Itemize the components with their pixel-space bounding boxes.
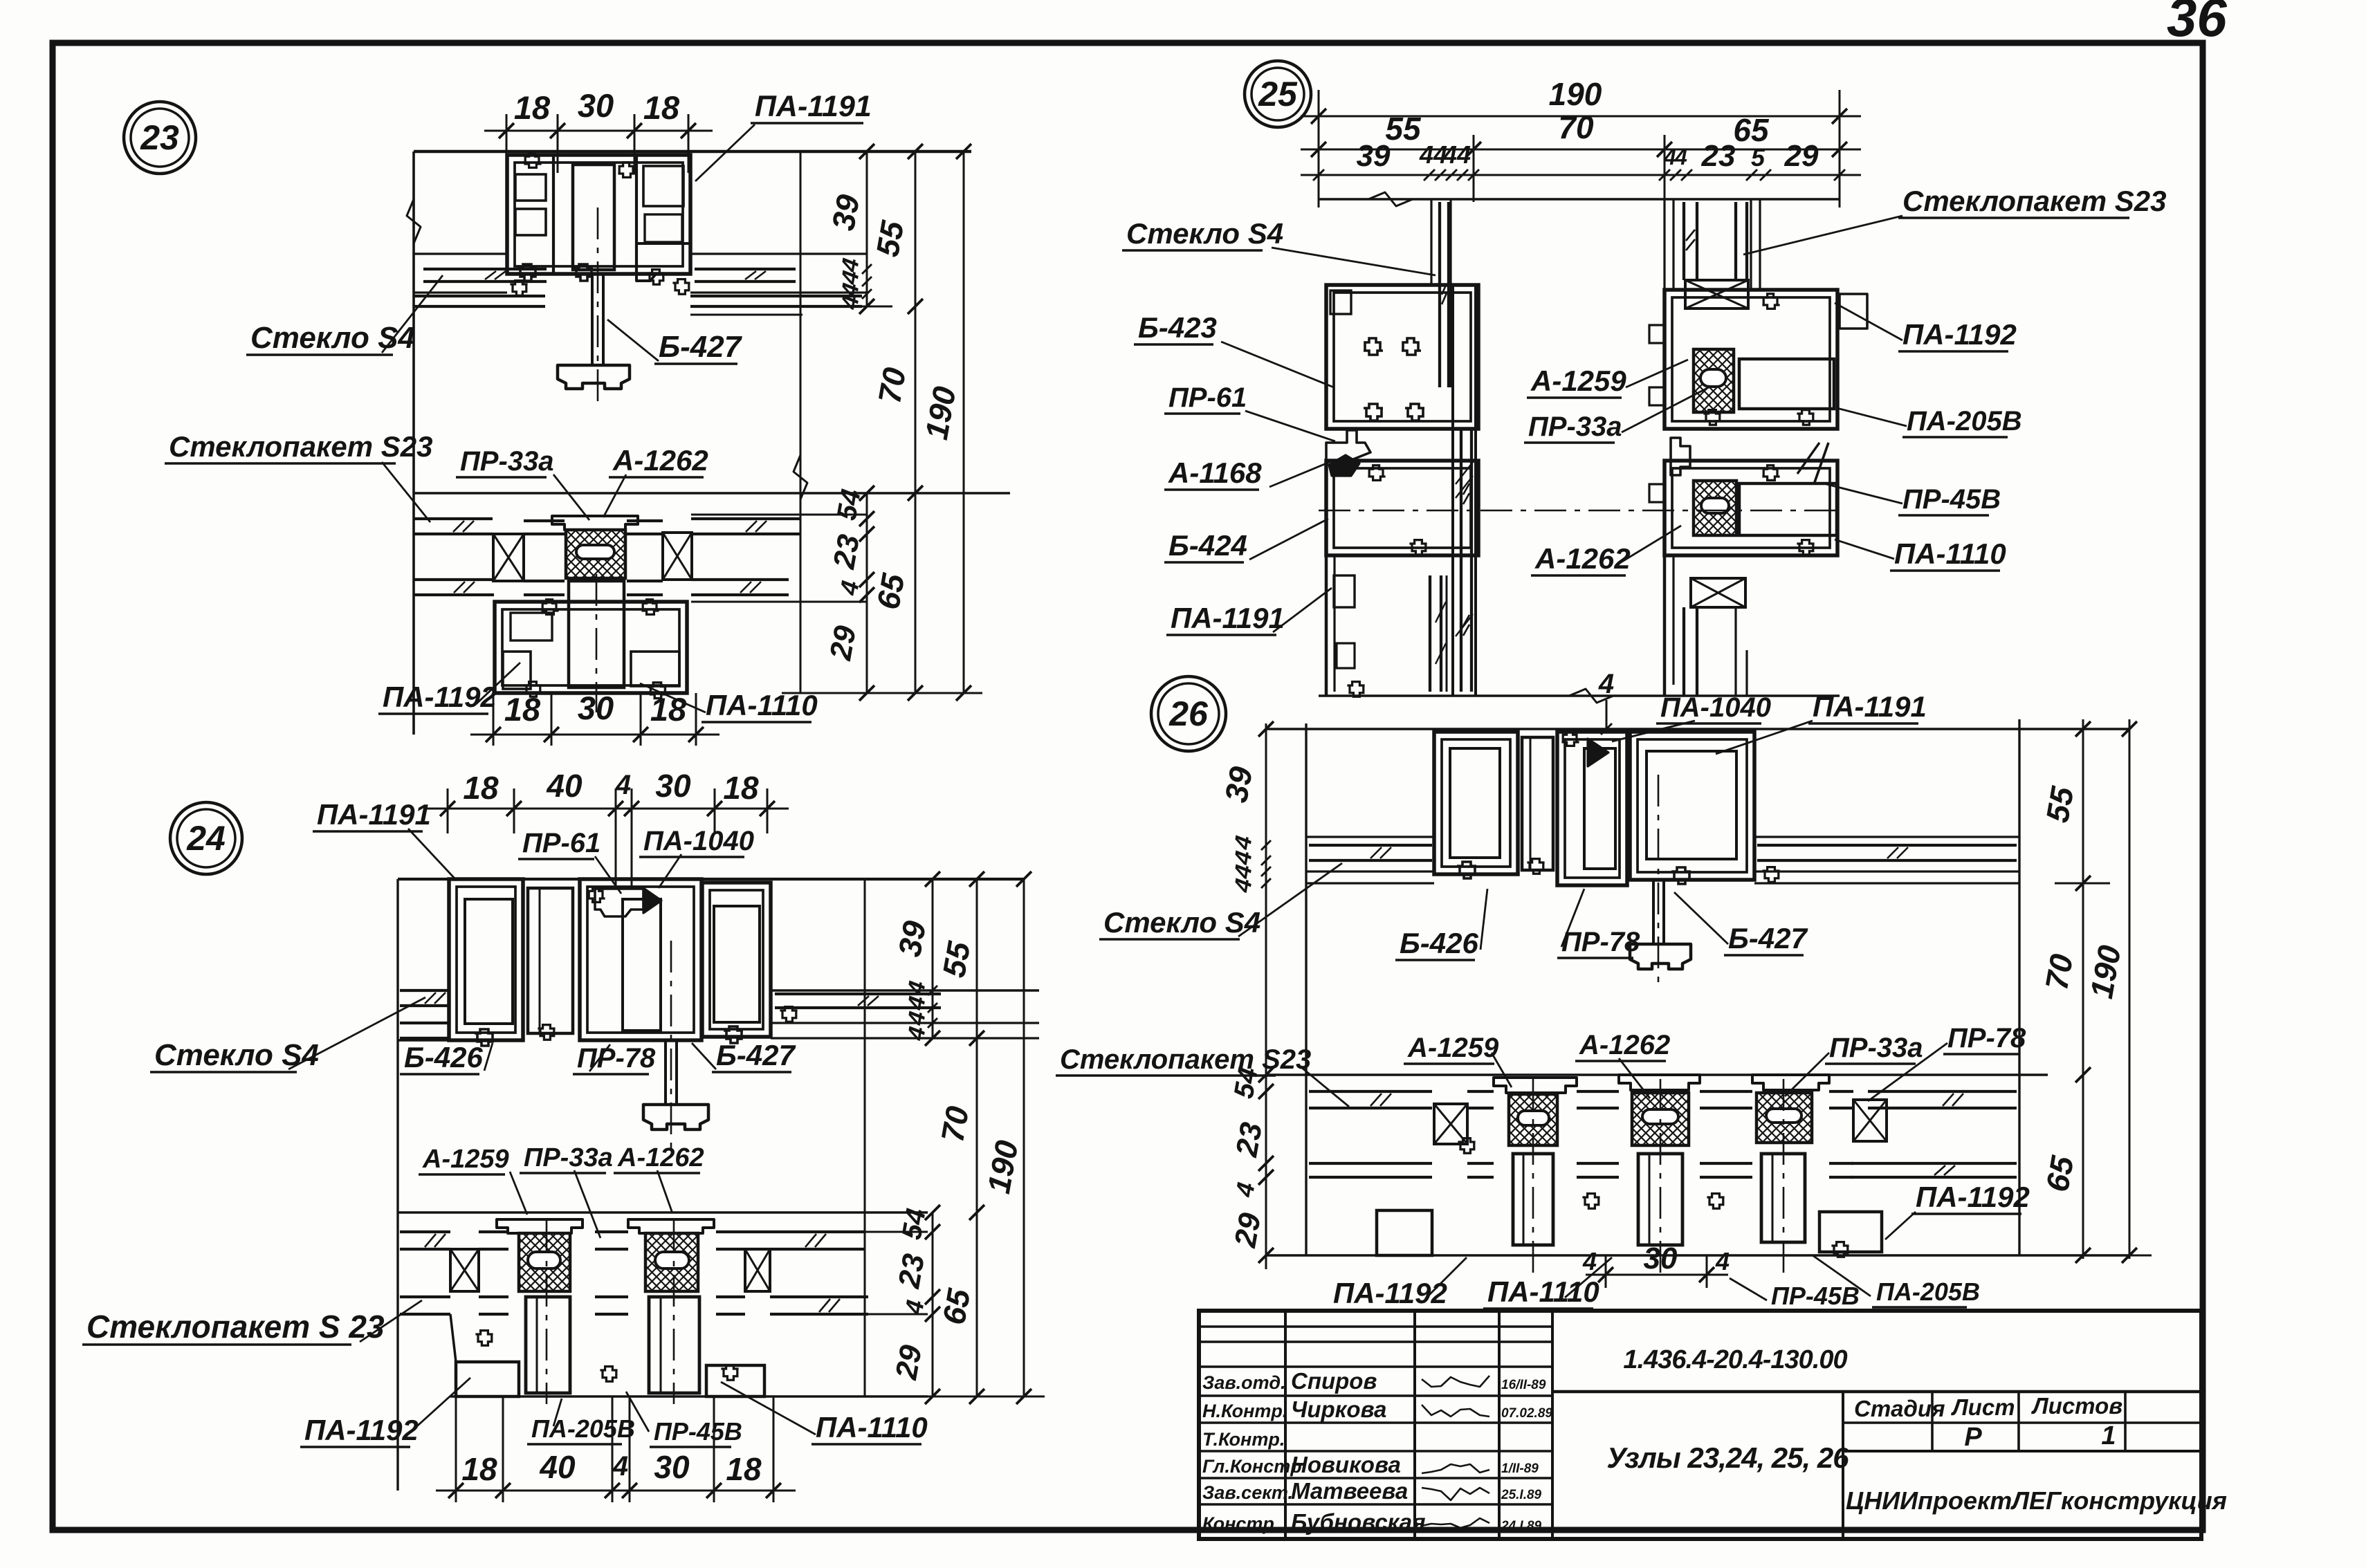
- svg-text:Лист: Лист: [1951, 1394, 2015, 1420]
- svg-text:А-1262: А-1262: [612, 444, 708, 477]
- svg-text:ПР-78: ПР-78: [1561, 927, 1640, 957]
- svg-text:Констр.: Констр.: [1202, 1513, 1279, 1534]
- svg-text:30: 30: [578, 87, 614, 124]
- svg-text:26: 26: [1168, 694, 1209, 733]
- svg-text:30: 30: [1644, 1242, 1678, 1275]
- svg-text:А-1168: А-1168: [1168, 456, 1262, 489]
- svg-text:4: 4: [1674, 145, 1687, 169]
- svg-text:Б-427: Б-427: [1728, 922, 1808, 954]
- svg-text:Листов: Листов: [2031, 1393, 2122, 1419]
- svg-text:70: 70: [2038, 951, 2080, 993]
- svg-text:Стекло S4: Стекло S4: [250, 321, 415, 355]
- svg-text:Стеклопакет S 23: Стеклопакет S 23: [86, 1309, 385, 1345]
- svg-text:30: 30: [654, 1449, 690, 1485]
- svg-text:ПР-33а: ПР-33а: [1528, 412, 1622, 442]
- svg-text:4: 4: [615, 770, 631, 800]
- svg-text:25: 25: [1258, 75, 1298, 113]
- svg-text:44: 44: [1442, 140, 1471, 169]
- svg-text:40: 40: [539, 1449, 576, 1485]
- svg-text:18: 18: [723, 770, 759, 806]
- svg-text:23: 23: [827, 532, 866, 572]
- svg-text:18: 18: [504, 691, 541, 728]
- svg-text:Чиркова: Чиркова: [1291, 1396, 1386, 1422]
- svg-text:23: 23: [892, 1251, 931, 1291]
- svg-text:24: 24: [186, 819, 226, 858]
- svg-text:Б-427: Б-427: [659, 330, 743, 364]
- svg-text:ПА-1192: ПА-1192: [1916, 1181, 2030, 1213]
- svg-text:ПА-1110: ПА-1110: [1487, 1275, 1599, 1308]
- svg-text:65: 65: [870, 570, 911, 612]
- svg-text:23: 23: [140, 118, 179, 157]
- svg-text:Зав.сект.: Зав.сект.: [1202, 1482, 1293, 1503]
- svg-text:ПА-1110: ПА-1110: [816, 1411, 928, 1444]
- svg-text:4: 4: [1715, 1247, 1730, 1275]
- svg-text:ПА-1192: ПА-1192: [383, 681, 497, 713]
- svg-text:А-1262: А-1262: [1534, 542, 1631, 575]
- svg-text:Матвеева: Матвеева: [1291, 1478, 1408, 1504]
- svg-text:ПР-33а: ПР-33а: [524, 1143, 613, 1172]
- svg-text:ПА-205В: ПА-205В: [1876, 1278, 1980, 1306]
- svg-text:ПА-1191: ПА-1191: [755, 90, 872, 123]
- svg-text:Спиров: Спиров: [1291, 1368, 1377, 1394]
- svg-text:ПА-1040: ПА-1040: [643, 826, 754, 856]
- svg-text:29: 29: [823, 623, 863, 663]
- svg-text:Стадия: Стадия: [1854, 1396, 1945, 1421]
- svg-text:70: 70: [1558, 109, 1594, 145]
- svg-text:Узлы 23,24, 25, 26: Узлы 23,24, 25, 26: [1606, 1441, 1849, 1474]
- svg-text:18: 18: [514, 89, 551, 126]
- svg-text:39: 39: [825, 192, 866, 233]
- svg-text:А-1259: А-1259: [1407, 1033, 1499, 1063]
- svg-text:16/II-89: 16/II-89: [1501, 1378, 1546, 1392]
- svg-text:1/II-89: 1/II-89: [1501, 1461, 1539, 1476]
- svg-text:39: 39: [1357, 139, 1391, 173]
- svg-text:Новикова: Новикова: [1291, 1452, 1401, 1477]
- svg-text:39: 39: [1218, 764, 1259, 805]
- svg-text:55: 55: [1385, 111, 1422, 147]
- svg-text:Б-427: Б-427: [716, 1039, 796, 1071]
- svg-text:ПР-45В: ПР-45В: [1771, 1282, 1860, 1310]
- svg-text:ПА-1040: ПА-1040: [1660, 692, 1771, 723]
- svg-text:29: 29: [1784, 139, 1819, 173]
- svg-text:ПР-33а: ПР-33а: [460, 446, 554, 477]
- svg-text:29: 29: [889, 1343, 928, 1383]
- svg-text:ПР-61: ПР-61: [1168, 382, 1247, 413]
- svg-text:Р: Р: [1964, 1423, 1982, 1452]
- svg-text:1: 1: [2101, 1421, 2116, 1450]
- svg-text:А-1262: А-1262: [617, 1143, 704, 1172]
- svg-text:ПА-205В: ПА-205В: [1907, 406, 2022, 436]
- svg-text:ПА-1191: ПА-1191: [1171, 602, 1285, 634]
- svg-text:Стекло S4: Стекло S4: [1103, 906, 1260, 939]
- svg-text:ПР-33а: ПР-33а: [1829, 1033, 1923, 1063]
- svg-text:А-1259: А-1259: [1530, 365, 1626, 397]
- svg-text:190: 190: [1549, 76, 1602, 112]
- svg-text:30: 30: [578, 690, 614, 726]
- svg-text:ПА-1192: ПА-1192: [304, 1414, 419, 1446]
- svg-text:54: 54: [832, 487, 867, 522]
- svg-text:Стеклопакет S23: Стеклопакет S23: [1060, 1044, 1311, 1075]
- svg-text:ПА-1110: ПА-1110: [1894, 537, 2006, 570]
- svg-text:4: 4: [612, 1451, 628, 1482]
- svg-text:ПА-1191: ПА-1191: [317, 798, 431, 831]
- svg-text:5: 5: [1751, 143, 1766, 172]
- svg-text:40: 40: [546, 768, 583, 804]
- svg-text:ПА-205В: ПА-205В: [531, 1414, 635, 1443]
- svg-text:А-1262: А-1262: [1579, 1030, 1670, 1060]
- svg-text:ПА-1192: ПА-1192: [1902, 318, 2017, 351]
- svg-text:Бубновская: Бубновская: [1291, 1509, 1426, 1535]
- svg-text:55: 55: [869, 217, 910, 259]
- svg-text:55: 55: [935, 938, 977, 980]
- svg-text:30: 30: [655, 768, 691, 804]
- svg-text:18: 18: [643, 89, 680, 126]
- svg-text:Зав.отд.: Зав.отд.: [1202, 1372, 1286, 1393]
- svg-text:70: 70: [934, 1103, 975, 1145]
- svg-text:18: 18: [463, 770, 499, 806]
- svg-text:23: 23: [1229, 1120, 1269, 1160]
- svg-text:65: 65: [935, 1285, 977, 1327]
- svg-text:ПР-78: ПР-78: [577, 1043, 656, 1073]
- svg-text:39: 39: [891, 918, 933, 959]
- svg-text:18: 18: [726, 1451, 762, 1487]
- svg-text:Стеклопакет S23: Стеклопакет S23: [169, 430, 432, 463]
- svg-text:1.436.4-20.4-130.00: 1.436.4-20.4-130.00: [1623, 1345, 1847, 1374]
- svg-text:25.I.89: 25.I.89: [1501, 1488, 1542, 1502]
- svg-text:Б-426: Б-426: [404, 1041, 483, 1073]
- svg-text:29: 29: [1228, 1210, 1267, 1251]
- svg-text:55: 55: [2039, 783, 2080, 825]
- svg-text:65: 65: [2039, 1152, 2080, 1195]
- svg-text:Стекло S4: Стекло S4: [1126, 217, 1283, 250]
- svg-text:Т.Контр.: Т.Контр.: [1202, 1429, 1285, 1450]
- svg-text:Б-423: Б-423: [1138, 311, 1217, 344]
- svg-text:Б-426: Б-426: [1400, 927, 1478, 959]
- svg-text:ПА-1191: ПА-1191: [1813, 690, 1927, 723]
- svg-text:70: 70: [871, 365, 913, 406]
- svg-text:24.I.89: 24.I.89: [1501, 1519, 1542, 1533]
- svg-text:54: 54: [897, 1206, 932, 1242]
- svg-text:18: 18: [461, 1451, 497, 1487]
- svg-text:Гл.Констр: Гл.Констр: [1202, 1456, 1302, 1477]
- svg-text:07.02.89: 07.02.89: [1501, 1406, 1552, 1421]
- svg-text:ПР-78: ПР-78: [1947, 1023, 2026, 1053]
- svg-text:ПР-61: ПР-61: [522, 828, 600, 858]
- svg-text:Б-424: Б-424: [1168, 529, 1247, 562]
- svg-text:ПР-45В: ПР-45В: [1902, 484, 2001, 515]
- svg-text:А-1259: А-1259: [422, 1145, 509, 1174]
- svg-text:Н.Контр.: Н.Контр.: [1202, 1401, 1287, 1421]
- svg-text:ЦНИИпроектЛЕГконструкция: ЦНИИпроектЛЕГконструкция: [1846, 1486, 2227, 1515]
- svg-text:23: 23: [1701, 139, 1736, 173]
- svg-text:ПР-45В: ПР-45В: [654, 1417, 742, 1446]
- svg-text:Стеклопакет S23: Стеклопакет S23: [1902, 185, 2166, 217]
- svg-text:4: 4: [1598, 669, 1614, 699]
